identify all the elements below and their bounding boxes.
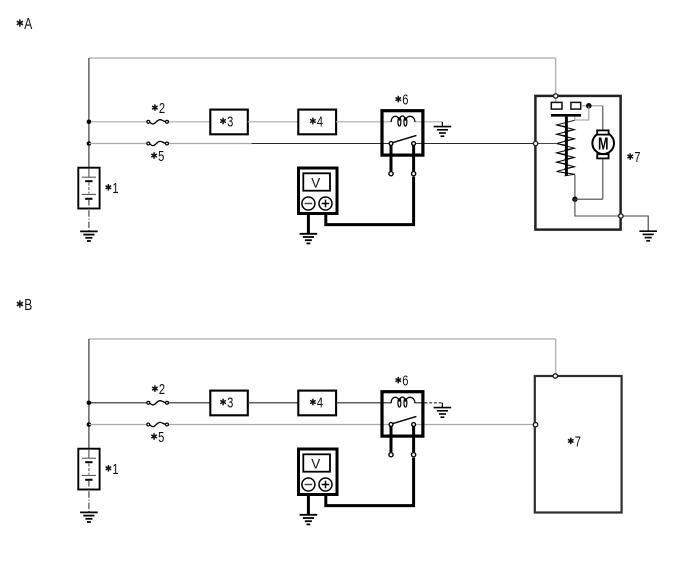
wire box3 to box4 [248,121,298,123]
ground (battery) [80,512,98,522]
voltmeter display rect [303,173,330,190]
wire row2 battery to fuse5 [89,424,146,426]
wire voltmeter plus to relay terminal [326,177,414,225]
wire row1 battery to fuse2 [89,402,146,404]
svg-text:M: M [598,133,609,153]
terminal bottom right (7A) [619,214,623,218]
wire top feed down to component 7 [555,339,557,375]
label *6 [396,92,409,109]
svg-text:B: B [24,297,32,314]
ground (voltmeter) [300,515,318,525]
battery *1 [78,449,99,490]
svg-text:4: 4 [317,395,323,412]
wire fuse5 right gray [169,143,252,145]
svg-text:1: 1 [112,180,118,197]
terminal top (7B) [553,374,557,378]
svg-text:6: 6 [402,373,408,390]
wire battery to ground [88,449,90,458]
plunger [565,117,568,176]
contact block right [571,102,581,109]
relay contact left [389,142,393,146]
contact plate bar [551,114,581,117]
label *5 [151,148,164,165]
node junction bottom [572,197,577,202]
voltmeter display rect [303,454,330,471]
wire main vertical to battery [88,339,90,449]
svg-text:5: 5 [158,148,164,165]
label *7 (circuit A) [627,149,640,166]
voltmeter box [299,168,338,214]
wire coil to ground [425,402,443,404]
battery *1 [78,168,99,209]
wire main vertical to battery [88,58,90,168]
wire row2 to relay switch [252,143,389,145]
relay box *6 [382,111,423,155]
node junction row2 [87,141,92,146]
wire battery to ground [88,168,90,177]
box *4 [298,110,336,135]
svg-text:V: V [311,176,321,191]
wire spring bottom to node [574,174,576,199]
wire top feed down to component 7 [555,58,557,94]
component *7 box (circuit B) [535,376,622,513]
label *3 [220,395,233,412]
relay terminal right [412,453,416,457]
relay switch blade [393,416,417,423]
wire box3 to box4 [248,402,298,404]
relay contact pins [390,425,393,453]
ground (component 7) [639,231,657,241]
wire right terminal to ground [624,216,649,231]
wire box4 to relay [336,402,382,404]
wire fuse2 to box3 [169,402,210,404]
component *7 box (circuit A) [535,96,620,230]
wire box4 to relay [336,121,382,123]
label *B [17,297,33,314]
motor M [592,130,614,199]
relay contact pins [390,144,393,172]
voltmeter minus terminal [302,478,315,491]
svg-text:2: 2 [159,100,165,117]
node junction row2 [87,422,92,427]
label *A [17,16,33,33]
contact block left [551,102,562,109]
svg-text:2: 2 [159,381,165,398]
fuse *2 [147,120,169,124]
voltmeter minus terminal [302,197,315,210]
label *4 [310,114,323,131]
wire voltmeter minus to ground [307,214,310,234]
terminal left (7B) [533,423,537,427]
relay coil [391,116,415,122]
wire fuse5 to relay switch [169,424,389,426]
label *1 [106,461,119,478]
relay contact right [412,423,416,427]
node junction row1 [87,120,92,125]
svg-text:4: 4 [317,114,323,131]
svg-text:5: 5 [158,429,164,446]
ground (battery) [80,231,98,241]
relay coil [391,397,415,403]
wire coil to ground [425,121,443,123]
relay box *6 [382,392,423,436]
wire terminal stub into box [555,99,557,103]
svg-text:7: 7 [575,433,581,450]
wire contact block to node [581,105,589,107]
svg-text:1: 1 [112,461,118,478]
box *4 [298,391,336,416]
wire row2 battery to fuse5 [89,143,146,145]
node junction row1 [87,401,92,406]
relay contact right [412,142,416,146]
node junction contact [586,103,592,109]
svg-text:3: 3 [227,395,233,412]
wire voltmeter minus to ground [307,495,310,515]
svg-text:3: 3 [227,114,233,131]
fuse *5 [147,422,169,426]
relay terminal left [389,172,393,176]
ground (voltmeter) [300,234,318,244]
wire relay switch to component7 [416,143,534,145]
svg-text:A: A [24,16,32,33]
wire left terminal to spring [538,143,557,145]
wire node to right terminal [575,199,618,216]
label *2 [152,381,165,398]
label *1 [106,180,119,197]
plunger spring [557,120,575,174]
label *3 [220,114,233,131]
wire top feed horizontal [89,338,556,340]
voltmeter box [299,449,338,495]
relay terminal right [412,172,416,176]
wire motor bottom to node [575,198,603,200]
wire plunger to node [575,106,589,120]
terminal left (7A) [533,141,537,145]
label *2 [152,100,165,117]
label *6 [396,373,409,390]
wire top feed horizontal [89,57,556,59]
label *4 [310,395,323,412]
label *7 (circuit B) [568,433,581,450]
box *3 [210,110,248,135]
voltmeter plus terminal [319,478,332,491]
label *5 [151,429,164,446]
fuse *2 [147,401,169,405]
svg-text:6: 6 [402,92,408,109]
fuse *5 [147,141,169,145]
wire relay switch to component7 [416,424,534,426]
svg-text:7: 7 [634,149,640,166]
wire coil inside relay [383,402,391,404]
relay contact left [389,423,393,427]
wire row1 battery to fuse2 [89,121,146,123]
ground (relay coil) [434,408,452,418]
wire fuse2 to box3 [169,121,210,123]
terminal top (7A) [554,94,558,98]
wire node to motor top [589,105,603,107]
voltmeter plus terminal [319,197,332,210]
relay switch blade [393,135,417,142]
wire voltmeter plus to relay terminal [326,458,414,506]
relay terminal left [389,453,393,457]
svg-text:V: V [311,457,321,472]
box *3 [210,391,248,416]
ground (relay coil) [434,127,452,137]
wire coil inside relay [383,121,391,123]
